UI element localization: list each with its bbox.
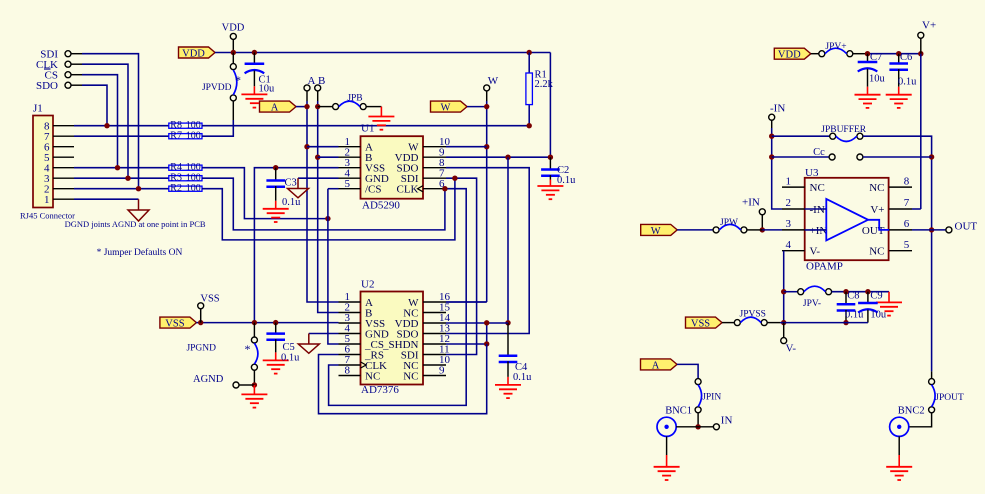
svg-text:A: A [652,360,660,371]
svg-text:* Jumper Defaults ON: * Jumper Defaults ON [97,247,183,258]
svg-text:U3: U3 [805,167,819,179]
svg-text:SDO: SDO [36,80,58,92]
svg-text:NC: NC [365,370,380,382]
svg-text:DGND joints AGND at one point: DGND joints AGND at one point in PCB [65,219,206,229]
svg-text:V-: V- [810,246,821,258]
svg-text:2: 2 [786,197,792,209]
svg-text:IN: IN [721,415,733,427]
svg-text:C6: C6 [900,52,912,63]
svg-text:5: 5 [904,239,910,251]
svg-text:JPV+: JPV+ [825,42,846,52]
svg-text:NC: NC [869,246,884,258]
svg-text:V+: V+ [922,20,936,32]
svg-text:A: A [271,103,279,114]
svg-text:9: 9 [439,365,445,377]
svg-text:100: 100 [186,131,201,142]
svg-text:JPB: JPB [347,94,362,104]
svg-text:0.1u: 0.1u [281,353,300,364]
svg-text:+IN: +IN [742,197,760,209]
svg-text:W: W [488,75,499,87]
svg-text:R8: R8 [170,120,182,131]
svg-text:7: 7 [904,197,910,209]
svg-text:100: 100 [186,173,201,184]
svg-text:VSS: VSS [165,319,184,330]
svg-text:/CS: /CS [365,184,382,196]
svg-text:3: 3 [786,218,792,230]
svg-text:8: 8 [904,175,910,187]
svg-text:C9: C9 [870,291,882,302]
svg-text:JPBUFFER: JPBUFFER [821,125,867,135]
svg-text:C5: C5 [283,342,295,353]
svg-text:J1: J1 [33,103,43,115]
svg-text:100: 100 [186,120,201,131]
svg-text:JPV-: JPV- [803,299,821,309]
svg-text:R3: R3 [170,173,182,184]
svg-text:V-: V- [786,343,797,355]
svg-text:5: 5 [345,178,351,190]
svg-text:JPVSS: JPVSS [740,310,766,320]
svg-text:0.1u: 0.1u [557,175,576,186]
svg-text:C8: C8 [847,291,859,302]
svg-text:0.1u: 0.1u [513,372,532,383]
svg-text:VDD: VDD [182,48,205,59]
svg-text:W: W [651,226,661,237]
svg-text:AD5290: AD5290 [362,200,400,212]
svg-text:BNC2: BNC2 [898,406,925,417]
svg-text:OUT: OUT [955,221,978,233]
svg-text:+IN: +IN [810,225,828,237]
svg-text:0.1u: 0.1u [282,197,301,208]
svg-text:VSS: VSS [200,294,219,305]
svg-text:JPVDD: JPVDD [202,83,232,93]
svg-text:NC: NC [810,182,825,194]
svg-text:U2: U2 [361,279,374,291]
svg-text:R2: R2 [170,183,182,194]
svg-text:*: * [235,73,241,87]
svg-text:BNC1: BNC1 [665,406,692,417]
svg-text:Cc: Cc [813,147,825,158]
svg-text:AD7376: AD7376 [361,384,399,396]
svg-text:0.1u: 0.1u [898,77,917,88]
svg-text:JPOUT: JPOUT [935,393,964,403]
svg-text:10u: 10u [870,310,887,321]
svg-text:R7: R7 [170,131,182,142]
svg-text:-IN: -IN [770,103,785,115]
svg-text:U1: U1 [361,123,374,135]
svg-text:-IN: -IN [810,204,825,216]
svg-text:10u: 10u [869,74,886,85]
svg-text:6: 6 [904,218,910,230]
svg-text:OUT: OUT [862,225,885,237]
svg-text:CLK: CLK [397,184,419,196]
svg-text:R4: R4 [170,162,182,173]
svg-text:AGND: AGND [193,374,224,385]
svg-text:VDD: VDD [778,50,801,61]
svg-text:2.2k: 2.2k [535,79,554,90]
svg-text:V+: V+ [870,204,884,216]
svg-text:JPIN: JPIN [702,393,721,403]
svg-text:4: 4 [786,239,792,251]
svg-text:C7: C7 [870,52,882,63]
svg-text:VSS: VSS [691,319,710,330]
svg-text:NC: NC [403,370,418,382]
svg-text:JPGND: JPGND [186,344,216,354]
svg-text:OPAMP: OPAMP [806,261,843,273]
svg-text:100: 100 [186,183,201,194]
svg-text:C3: C3 [285,178,297,189]
svg-text:1: 1 [44,194,50,206]
svg-text:VDD: VDD [222,23,245,34]
svg-text:*: * [245,342,251,356]
svg-text:NC: NC [869,182,884,194]
svg-text:100: 100 [186,162,201,173]
svg-text:10u: 10u [259,84,276,95]
svg-text:8: 8 [345,365,351,377]
svg-text:W: W [441,103,451,114]
svg-text:JPW: JPW [720,218,738,228]
svg-text:1: 1 [786,175,792,187]
